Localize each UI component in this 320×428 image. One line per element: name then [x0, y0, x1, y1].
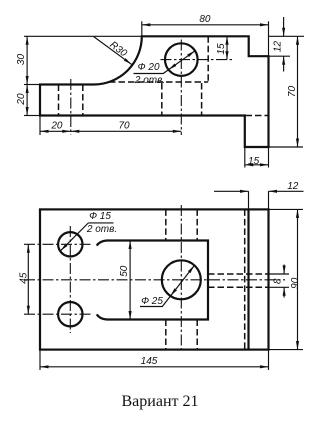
- svg-text:70: 70: [118, 120, 130, 131]
- svg-text:Ф 15: Ф 15: [89, 211, 111, 222]
- svg-text:20: 20: [16, 93, 27, 106]
- svg-text:2 отв.: 2 отв.: [134, 75, 165, 86]
- svg-text:8: 8: [273, 278, 284, 284]
- svg-text:70: 70: [287, 86, 298, 98]
- svg-text:Ф 20: Ф 20: [138, 62, 160, 73]
- svg-text:90: 90: [290, 277, 301, 289]
- svg-text:12: 12: [273, 41, 284, 53]
- svg-text:2 отв.: 2 отв.: [86, 224, 117, 235]
- svg-text:20: 20: [50, 121, 63, 132]
- svg-text:R30: R30: [107, 39, 129, 59]
- svg-text:80: 80: [199, 14, 211, 25]
- svg-text:30: 30: [16, 54, 27, 66]
- svg-text:15: 15: [248, 156, 260, 167]
- svg-text:50: 50: [119, 265, 130, 277]
- svg-text:15: 15: [216, 43, 227, 55]
- svg-text:Ф 25: Ф 25: [141, 296, 163, 307]
- svg-text:145: 145: [141, 356, 158, 367]
- svg-text:45: 45: [19, 272, 30, 284]
- svg-text:12: 12: [287, 181, 299, 192]
